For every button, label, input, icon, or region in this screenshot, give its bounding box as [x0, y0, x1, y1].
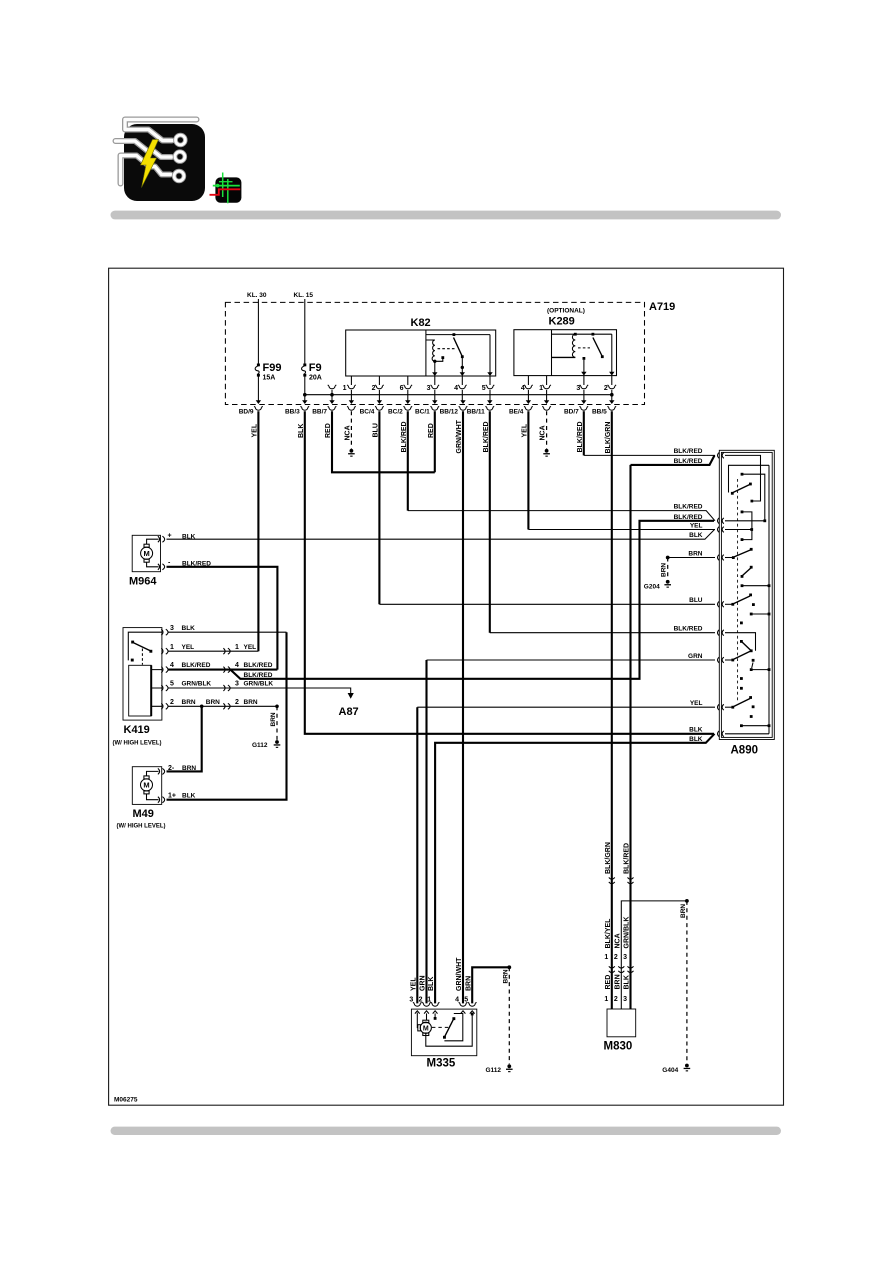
K419 switch arm dot: [149, 650, 152, 653]
svg-text:GRN/WHT: GRN/WHT: [456, 957, 463, 991]
svg-text:3: 3: [409, 997, 413, 1004]
svg-text:F99: F99: [263, 362, 282, 374]
NCA termination ground: [348, 449, 355, 457]
A890 switch4 arm: [733, 596, 750, 604]
inline connector pair lower on pin1: [609, 966, 615, 972]
K419 pin 3 connector: [161, 629, 168, 635]
svg-text:(OPTIONAL): (OPTIONAL): [547, 308, 585, 315]
ground G112: [506, 1064, 513, 1072]
svg-text:BB/7: BB/7: [312, 408, 327, 415]
svg-text:5: 5: [464, 997, 468, 1004]
M964 box: [132, 535, 160, 571]
svg-text:BRN: BRN: [244, 699, 258, 706]
A890 pin5 internal lead: [725, 603, 733, 605]
svg-text:3: 3: [235, 681, 239, 688]
svg-text:1: 1: [604, 954, 608, 961]
A890 edge connector pin 6: [718, 630, 724, 636]
M335 pin entry arrows: [415, 1011, 475, 1014]
dashed BRN drop to G112: [508, 967, 510, 1064]
A890 switch1 pivot dot: [731, 492, 734, 495]
svg-text:KL. 30: KL. 30: [247, 292, 267, 299]
K289 inner top line: [552, 333, 612, 335]
M335 bottom return path: [426, 1015, 472, 1047]
BRN tap dot: [507, 965, 511, 969]
A890 edge connector pin 1: [718, 453, 724, 459]
fuse F9 20A: [302, 362, 322, 382]
wire NCA stub at K289 pin 1: [546, 411, 548, 449]
svg-text:2: 2: [235, 699, 239, 706]
A890 mid bus contact dot: [741, 473, 744, 476]
ground G112: [274, 740, 281, 748]
svg-text:M335: M335: [427, 1058, 456, 1070]
G204 tap dot: [666, 556, 670, 560]
svg-text:6: 6: [400, 385, 404, 392]
wire BLK M335 pin1 to A890: [435, 734, 714, 1004]
svg-text:4: 4: [455, 997, 459, 1004]
wire BLK/RED BB/11 drop: [489, 411, 491, 633]
M49 pin 2- label: [168, 765, 196, 772]
svg-text:NCA: NCA: [344, 425, 351, 440]
A890 switch5 common dot: [750, 649, 753, 652]
svg-text:BLK/RED: BLK/RED: [674, 504, 703, 511]
BLK/RED inline connector: [223, 667, 230, 673]
svg-text:BC/2: BC/2: [388, 408, 403, 415]
relay K289 box: [514, 330, 617, 376]
A890 switch6 end dot: [749, 696, 752, 699]
K419 dashed actuator: [141, 649, 143, 665]
K289 pin numbers 4 1 3 2: [521, 385, 608, 392]
wire RED BC/1 drop: [434, 411, 436, 472]
A890 inner box: [721, 452, 772, 737]
svg-text:BLK: BLK: [624, 975, 631, 989]
svg-text:15A: 15A: [263, 375, 276, 382]
dashed BRN drop to G204: [667, 558, 669, 580]
K419 pin 4 label: [170, 662, 211, 669]
K289 pin 3 contact dot: [583, 357, 586, 360]
wire GRN/WHT BB/12 to M335: [462, 411, 464, 1003]
svg-text:GRN/BLK: GRN/BLK: [182, 681, 212, 688]
K419 pin 1 connector: [161, 648, 168, 654]
A890 edge connector pin 2: [718, 518, 724, 524]
K82 pin 4 internal drop: [461, 357, 463, 376]
svg-text:BLK: BLK: [689, 532, 703, 539]
svg-text:4: 4: [521, 385, 525, 392]
M335 pin cups: [413, 1002, 477, 1006]
M335 switch arm dots: [443, 1017, 455, 1039]
YEL inline connector: [223, 648, 230, 654]
A890 switch4 idle contact dot: [752, 603, 755, 606]
svg-text:A719: A719: [649, 301, 675, 313]
wire BLK/RED from A890 down to M830 pin 3: [631, 455, 715, 1009]
GRN run to A890: [427, 659, 716, 661]
A890 switch6 arm: [733, 699, 750, 707]
K289 relay coil: [572, 334, 575, 357]
svg-text:BLK/RED: BLK/RED: [674, 514, 703, 521]
M49 pin 1+ label: [168, 793, 196, 800]
K82 switch arm end dot: [461, 355, 464, 358]
A890 edge connector pin 3: [718, 527, 724, 533]
K289 switch arm: [593, 338, 602, 357]
A890 link row 725 dots: [740, 724, 770, 727]
wire BLK vertical to M49: [167, 632, 287, 800]
svg-text:GRN/BLK: GRN/BLK: [624, 917, 631, 949]
A890 switch5 idle contact dot: [752, 659, 755, 662]
wire YEL BD/9 to K419 pin 1: [257, 411, 259, 651]
svg-text:BE/4: BE/4: [509, 408, 524, 415]
arrow to A87: [348, 693, 354, 699]
svg-text:BB/5: BB/5: [592, 408, 607, 415]
A890 cell1 frame: [729, 465, 770, 492]
ground G204: [664, 580, 671, 588]
svg-text:NCA: NCA: [540, 425, 547, 440]
A890 switch5 upper arm: [742, 642, 751, 651]
A890 link row 585 dots: [741, 584, 771, 587]
svg-text:2: 2: [419, 997, 423, 1004]
svg-text:K82: K82: [411, 317, 431, 329]
wire BLK/RED branch to A890 pin row 2: [230, 521, 714, 679]
svg-text:(W/ HIGH LEVEL): (W/ HIGH LEVEL): [113, 741, 162, 747]
M964 pin - connector: [158, 564, 165, 570]
wire below F99: [257, 377, 259, 401]
A890 pin8 internal lead: [725, 706, 733, 708]
svg-text:BB/12: BB/12: [440, 408, 459, 415]
A890 pin4 internal lead: [725, 557, 733, 559]
A890 switch6 idle contact dot: [752, 705, 755, 708]
BRN junction dot to M49: [200, 705, 204, 709]
connector assembly A719 dashed box: [225, 302, 644, 404]
M335 pin5 contact dot: [471, 1013, 474, 1016]
K419 pin 5 connector: [161, 685, 168, 691]
K419 pin 1 label: [170, 644, 194, 651]
svg-text:BRN: BRN: [688, 550, 702, 557]
K419 pin 2 label: [170, 699, 196, 706]
A890 idle dot 716: [750, 715, 753, 718]
K289 coil top dot: [574, 333, 577, 336]
svg-text:BRN: BRN: [270, 712, 277, 726]
K419 block pin links: [151, 670, 162, 707]
A890 link row 585: [742, 585, 769, 587]
K82 pin drops to A719 edge: [351, 390, 490, 401]
inline connector pair lower on pin2: [618, 966, 624, 972]
svg-text:BLK: BLK: [182, 793, 196, 800]
A890 link row 614 dots: [750, 613, 771, 616]
svg-text:M06275: M06275: [114, 1097, 138, 1104]
A890 pin7 internal lead: [725, 659, 733, 661]
bus wire from F9 to K289 pin 2: [305, 394, 612, 396]
lower pin numbers 1 2 3: [604, 996, 627, 1003]
A890 switch2 arm: [734, 550, 751, 557]
A890 pin3 internal lead: [725, 529, 752, 531]
BRN downstream label: [235, 699, 258, 706]
A890 link row 614: [751, 613, 769, 615]
svg-text:BLK/RED: BLK/RED: [624, 843, 631, 874]
wire KL30 feed: [257, 299, 259, 364]
A890 switch3 pivot dot: [741, 575, 744, 578]
svg-text:BRN: BRN: [502, 969, 509, 983]
wire BRN M49 pin2 up to K419: [167, 706, 202, 771]
K82 pin 4 arrow: [460, 372, 465, 376]
svg-text:2: 2: [614, 954, 618, 961]
svg-text:1+: 1+: [168, 793, 176, 800]
svg-text:M49: M49: [133, 808, 154, 820]
svg-text:BLK/RED: BLK/RED: [674, 458, 703, 465]
K82 pin cups: [347, 385, 494, 389]
wire BB/7 stub with cup inside A719: [328, 385, 337, 401]
wire YEL M335 pin3 to A890: [416, 707, 418, 1003]
YEL downstream label: [235, 644, 256, 651]
A890 link row 669 dots: [750, 668, 771, 671]
K419 pin 4 connector: [161, 667, 168, 673]
svg-text:4: 4: [454, 385, 458, 392]
svg-text:2: 2: [170, 699, 174, 706]
A890 switch2 pivot dot: [732, 556, 735, 559]
svg-text:BLK/RED: BLK/RED: [674, 448, 703, 455]
K82 dashed actuator link: [438, 348, 457, 350]
M964 pin + connector: [158, 536, 165, 542]
K289 pin 3 arrow: [581, 372, 586, 376]
wire BRN M335 pin5 to G112: [472, 967, 509, 1003]
logo: black rounded square with circuit traces and lightning bolt: [116, 120, 206, 202]
svg-text:GRN: GRN: [420, 975, 427, 991]
A890 switch6 pivot dot: [731, 706, 734, 709]
svg-text:M964: M964: [129, 576, 157, 588]
inline connector pair upper on BLK/RED: [628, 877, 634, 883]
A890 bracket link: [742, 512, 752, 540]
K419 switch arm: [134, 643, 152, 651]
svg-text:NCA: NCA: [614, 933, 621, 948]
svg-text:K289: K289: [549, 316, 575, 328]
K289 pin cups: [524, 385, 616, 389]
wire BRN K419 pin2: [168, 705, 277, 707]
GRN/BLK inline connector: [223, 685, 230, 691]
svg-text:BD/7: BD/7: [564, 408, 579, 415]
junction dot at BB/7: [330, 393, 334, 397]
wire YEL K419 pin1: [168, 650, 259, 652]
wire BLK BB/3 to A890: [305, 411, 714, 734]
svg-text:YEL: YEL: [690, 700, 703, 707]
A890 pin6 internal lead: [725, 633, 756, 651]
svg-text:BLK/RED: BLK/RED: [182, 662, 211, 669]
wire KL15 feed: [304, 299, 306, 364]
M49 motor symbol: [141, 771, 159, 799]
svg-text:1: 1: [343, 385, 347, 392]
junction dot at K289 pin 2: [610, 393, 614, 397]
svg-text:-: -: [168, 560, 171, 567]
svg-text:3: 3: [427, 385, 431, 392]
K289 dashed actuator link: [578, 347, 590, 349]
YEL run to A890: [417, 706, 715, 708]
svg-text:BLK: BLK: [689, 727, 703, 734]
A890 link row 725: [741, 725, 769, 727]
svg-text:20A: 20A: [309, 375, 322, 382]
A890 pin1 contact dot: [751, 500, 754, 503]
A890 pin2 internal lead: [725, 520, 765, 522]
fuse F99 15A: [255, 362, 281, 382]
BRN inline connector: [223, 703, 230, 709]
svg-text:4: 4: [235, 662, 239, 669]
A890 internal dashed actuator column: [737, 479, 739, 702]
svg-text:KL. 15: KL. 15: [294, 292, 314, 299]
K289 pin stubs box-to-cup: [528, 376, 611, 385]
wire BLK from M964 to A890: [167, 530, 715, 540]
wire below F9: [304, 377, 306, 401]
connector arrows at dashed edge: [256, 400, 615, 404]
small schematic icon: black square with green grid and red wire: [210, 173, 242, 204]
svg-text:BLU: BLU: [689, 597, 703, 604]
svg-text:G112: G112: [486, 1067, 502, 1074]
BLK/RED downstream label: [235, 662, 273, 669]
A890 pin2 junction dot: [763, 519, 766, 522]
A890 switch4 end dot: [749, 594, 752, 597]
K82 internal divider: [425, 330, 427, 376]
svg-text:M: M: [423, 1025, 429, 1032]
svg-text:5: 5: [170, 681, 174, 688]
A890 switch4 pivot dot: [731, 603, 734, 606]
A890 bracket dots: [741, 511, 744, 542]
BRN end dot at G112 tap: [275, 705, 279, 709]
svg-text:1: 1: [170, 644, 174, 651]
svg-text:BRN: BRN: [680, 904, 687, 918]
A890 switch5 upper dot: [740, 640, 743, 643]
wire BLK/RED BC/2 run to A890: [408, 511, 715, 521]
wire GRN M335 pin2 to A890: [425, 660, 427, 1003]
svg-text:3: 3: [576, 385, 580, 392]
K289 switch arm end dot: [601, 355, 604, 358]
A890 link row 669: [751, 669, 769, 671]
svg-text:YEL: YEL: [182, 644, 195, 651]
svg-text:BC/4: BC/4: [360, 408, 375, 415]
M49 pin 1 connector: [158, 797, 165, 803]
K82 pin numbers 1 2 6 3 4 5: [343, 385, 486, 392]
K82 pin 3 internal drop: [434, 361, 436, 375]
K419 inner block: [129, 665, 152, 716]
M49 box: [132, 767, 161, 805]
svg-text:BRN: BRN: [661, 563, 668, 577]
svg-text:1: 1: [604, 996, 608, 1003]
K82 pin 3 arrow: [432, 372, 437, 376]
A890 switch5 lower arm: [733, 651, 751, 660]
M49 pin 2 connector: [158, 768, 165, 774]
K289 pin drops to A719 edge: [528, 390, 611, 401]
K419 inner block heavy edge: [150, 665, 152, 716]
K82 coil bottom junction dot: [433, 360, 436, 363]
M830 box: [607, 1009, 636, 1037]
inline connector pair upper on BLK/GRN: [609, 877, 615, 883]
dashed BRN drop to G112: [276, 706, 278, 740]
svg-text:G404: G404: [662, 1067, 678, 1074]
svg-text:3: 3: [170, 625, 174, 632]
wire RED BB/7 link: [332, 411, 435, 472]
svg-text:A890: A890: [731, 745, 759, 757]
K289 pin 2 arrow: [609, 372, 614, 376]
K419 idle contact dot: [131, 659, 134, 662]
M335 dashed actuator: [432, 1026, 449, 1028]
wire YEL BE/4 drop: [527, 411, 529, 529]
K82 switch arm: [454, 338, 463, 357]
K289 switch pivot dot: [592, 333, 595, 336]
A890 pin9 internal lead: [725, 733, 769, 735]
svg-text:A87: A87: [339, 706, 359, 718]
wire GRN/BLK K419 pin5 to A87: [168, 688, 351, 694]
junction dot at F9: [303, 393, 307, 397]
svg-text:BLK: BLK: [428, 977, 435, 991]
wire BLK/RED K419 pin4 trunk: [168, 669, 278, 671]
svg-text:G204: G204: [644, 584, 660, 591]
K419 switch pivot dot: [131, 641, 134, 644]
svg-text:BC/1: BC/1: [415, 408, 430, 415]
A890 edge connector pin 4: [718, 555, 724, 561]
svg-text:5: 5: [482, 385, 486, 392]
wire BLU horizontal run: [379, 603, 715, 605]
K419 pin 5 label: [170, 681, 211, 688]
svg-text:BRN: BRN: [206, 699, 220, 706]
svg-text:M830: M830: [604, 1041, 633, 1053]
A890 switch1 end dot: [749, 483, 752, 486]
A890 idle dot 688: [740, 687, 743, 690]
wire YEL BE/4 run to A890: [528, 529, 715, 531]
K419 box: [123, 628, 162, 721]
M335 switch arm: [444, 1019, 453, 1038]
K419 pin 2 connector: [161, 703, 168, 709]
svg-text:K419: K419: [124, 724, 150, 736]
wire BRN A890 to G204: [668, 557, 715, 559]
K419 pin 3 label: [170, 625, 195, 632]
A890 idle stub: [752, 663, 753, 669]
K419 inner top rail: [128, 632, 162, 660]
A890 pin1 internal lead: [725, 455, 761, 501]
svg-text:2: 2: [614, 996, 618, 1003]
wire BLK/RED from M964 down to K419 row: [167, 567, 278, 670]
svg-text:BLK/GRN: BLK/GRN: [605, 842, 612, 874]
diagram frame: [109, 268, 784, 1105]
M335 pin1 stub: [434, 1013, 436, 1017]
K82 coil top contact dot: [453, 333, 456, 336]
wire NCA stub at BC/4 side: [350, 411, 352, 449]
A890 mid bus with dot: [742, 474, 765, 521]
A890 idle dot 623: [740, 622, 743, 625]
svg-text:BB/11: BB/11: [467, 408, 485, 415]
svg-text:YEL: YEL: [410, 977, 417, 991]
A890 edge connector pin 9: [718, 731, 724, 737]
svg-text:BLK: BLK: [689, 736, 703, 743]
K82 pin 5 internal drop: [489, 335, 491, 375]
svg-text:G112: G112: [252, 742, 268, 749]
svg-text:3: 3: [623, 996, 627, 1003]
svg-text:2: 2: [604, 385, 608, 392]
relay K82 box: [346, 330, 496, 376]
svg-text:BLK: BLK: [182, 625, 196, 632]
svg-text:(W/ HIGH LEVEL): (W/ HIGH LEVEL): [117, 824, 166, 830]
svg-text:BLK/RED: BLK/RED: [244, 662, 273, 669]
wire M830 pin 2 to G404: [621, 901, 687, 1009]
M335 pin numbers: [409, 997, 468, 1004]
K289 coil bottom return: [552, 356, 576, 358]
wire BLK/GRN BB/5 to M830 pin 1: [611, 411, 613, 1009]
svg-text:BRN: BRN: [182, 699, 196, 706]
svg-text:M: M: [143, 549, 149, 558]
M335 switch frame: [444, 1014, 462, 1041]
M335 motor symbol: [417, 1013, 431, 1036]
svg-text:GRN/BLK: GRN/BLK: [244, 681, 274, 688]
svg-text:F9: F9: [309, 362, 322, 374]
svg-text:2: 2: [372, 385, 376, 392]
top grey divider bar: [111, 211, 782, 220]
A890 edge connector pin 8: [718, 704, 724, 710]
inline connector pair lower on pin3: [628, 966, 634, 972]
K82 pin stubs box-to-cup: [351, 376, 490, 385]
K82 pin 5 arrow: [487, 372, 492, 376]
A890 switch3 arm: [743, 568, 751, 576]
